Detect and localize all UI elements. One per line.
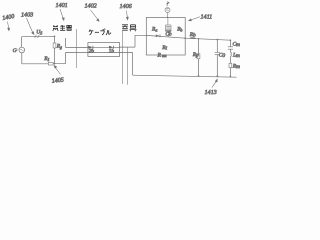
wire electrode line right [127, 47, 129, 85]
svg-text:1405: 1405 [51, 77, 64, 85]
node dot Cm top [230, 39, 232, 41]
svg-text:Cm: Cm [233, 41, 241, 48]
wire 1402 leader arrow [91, 10, 98, 19]
component crystal box [166, 25, 171, 31]
source Us symbol [35, 35, 40, 38]
wire source top lead [21, 37, 23, 48]
wire sensor lead [167, 13, 169, 18]
wire 1403 leader arrow [27, 18, 33, 32]
source G circle [19, 47, 25, 53]
wire generator output bracket [65, 38, 67, 64]
svg-text:US: US [36, 29, 43, 35]
svg-text:C0: C0 [219, 52, 226, 59]
wire load box internal bus [146, 35, 185, 38]
label load kanji [122, 25, 137, 31]
svg-text:G: G [13, 48, 17, 54]
wire 1413 leader arrow [212, 81, 216, 87]
svg-text:1402: 1402 [85, 3, 97, 10]
sensor squiggle label [167, 2, 170, 7]
wire cable to load top [120, 35, 147, 47]
wire generator bottom [22, 63, 66, 65]
wire electrode line left [122, 31, 124, 84]
wire Rg branch [54, 36, 56, 63]
terminal block on box bottom [162, 55, 167, 58]
resistor Rg [53, 43, 56, 48]
node dots cable ports [87, 47, 88, 48]
node dots C0 [217, 39, 219, 41]
resistor Rp branch [197, 54, 200, 59]
wire sensor lead inner [167, 17, 169, 25]
svg-text:Lm: Lm [232, 53, 240, 60]
wire cable inner bottom [88, 52, 120, 54]
svg-text:1413: 1413 [205, 89, 217, 96]
label cable kana [89, 29, 111, 35]
wire 1406 leader arrow [126, 11, 129, 18]
sensor circle above box [165, 8, 170, 13]
capacitor Cm [228, 47, 233, 49]
wire 1411 leader arrow [192, 17, 201, 20]
wire cable to load bottom [120, 53, 133, 76]
resistor R1 on bottom wire [48, 62, 53, 65]
wire 1400 leader arrow [8, 22, 9, 29]
wire cable lower lead [66, 52, 88, 54]
svg-text:2b: 2b [89, 48, 95, 54]
wire 1405 leader arrow [56, 68, 61, 75]
wire bottom rail [133, 75, 237, 77]
svg-text:1406: 1406 [120, 3, 133, 10]
wire cable inner top [88, 46, 120, 48]
component blob on bus [156, 35, 160, 38]
series component on bus [190, 37, 196, 39]
cable series element 2 [109, 46, 113, 49]
wire crystal to bus [167, 31, 169, 37]
node dots Rp [198, 38, 200, 40]
inductor Lm [230, 52, 231, 56]
node dot sensor lead [167, 17, 168, 18]
wire section divider [76, 29, 78, 68]
svg-text:Rg: Rg [56, 43, 62, 49]
svg-text:Rp: Rp [192, 52, 199, 59]
label generator kanji [53, 25, 72, 31]
wire branch Cm Lm Rm [229, 40, 231, 76]
resistor Rm [229, 63, 232, 67]
svg-text:Ra: Ra [151, 26, 157, 32]
svg-text:Rm: Rm [232, 63, 240, 70]
node dot bus at box edge [184, 37, 186, 39]
node junction dot bottom [54, 63, 56, 65]
svg-text:Rb: Rb [176, 27, 182, 33]
wire branch C0 [216, 40, 218, 77]
node dot rail right [230, 75, 232, 77]
node junction dot top [54, 36, 56, 38]
svg-text:1400: 1400 [2, 13, 16, 22]
svg-text:1403: 1403 [21, 12, 33, 19]
wire source bottom lead [21, 53, 23, 64]
svg-text:1401: 1401 [56, 2, 68, 9]
svg-text:Rb: Rb [189, 32, 196, 39]
svg-text:1b: 1b [109, 49, 115, 55]
cable series element 1 [89, 46, 93, 49]
capacitor C0 [215, 52, 220, 54]
wire cable upper lead [66, 46, 88, 48]
wire branch Rp [198, 39, 200, 76]
svg-text:1411: 1411 [201, 14, 213, 21]
wire output bus [185, 38, 230, 40]
load box [146, 17, 185, 55]
wire 1401 leader arrow [60, 9, 63, 18]
wire generator top [22, 35, 55, 37]
svg-text:Rt: Rt [161, 45, 167, 52]
cable box [88, 43, 120, 57]
svg-text:R1: R1 [43, 56, 49, 62]
